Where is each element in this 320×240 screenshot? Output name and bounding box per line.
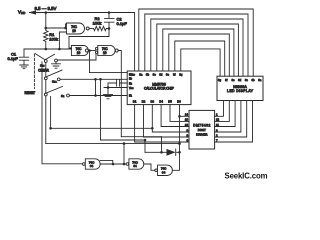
svg-text:Sa: Sa bbox=[139, 72, 143, 76]
IC digit driver DM75492 bbox=[189, 110, 215, 149]
wire row K line y=49 bbox=[24, 48, 71, 50]
svg-text:S16: S16 bbox=[40, 64, 45, 68]
wire switch chain bbox=[45, 62, 47, 77]
LED display NSN66A bbox=[217, 76, 263, 100]
svg-text:10: 10 bbox=[77, 51, 81, 55]
switch S1A bbox=[44, 77, 47, 80]
wire chip K2 row (keyboard row) bbox=[60, 78, 127, 80]
resistor R2 bbox=[94, 26, 110, 30]
svg-text:MM5736: MM5736 bbox=[152, 82, 166, 86]
op-amp gate U1A 74C10 NAND oscillator bbox=[66, 23, 84, 34]
wire gate2 tap to chip K1 bbox=[90, 51, 128, 73]
IC chip MM5736 bbox=[127, 71, 191, 105]
wire digit D5 bbox=[170, 105, 189, 122]
svg-text:VDD: VDD bbox=[18, 9, 26, 15]
svg-text:S2: S2 bbox=[61, 94, 65, 98]
wire CLEAR switch to gate3 input bbox=[57, 54, 96, 60]
dashed reset link bbox=[33, 54, 35, 89]
node rail-C2 bbox=[108, 11, 111, 14]
svg-text:LED DISPLAY: LED DISPLAY bbox=[227, 89, 254, 93]
svg-text:100k: 100k bbox=[93, 20, 102, 25]
svg-text:K1: K1 bbox=[129, 94, 133, 98]
wire gate6 out up to diode node bbox=[172, 152, 179, 170]
svg-text:DRIVER: DRIVER bbox=[196, 133, 208, 137]
wire switch chain 2 bbox=[45, 80, 47, 93]
wire digit D2 bbox=[144, 105, 190, 137]
wire riser H2 to diode node bbox=[161, 137, 163, 153]
wire S2 to riser bbox=[70, 79, 128, 95]
wire riser keyboard column bbox=[100, 79, 102, 140]
wire driver out 7 bbox=[215, 101, 253, 143]
ground chip VSS bbox=[104, 88, 113, 99]
node rail-R1 bbox=[45, 11, 48, 14]
wire gate3 out down to keyboard line H2 bbox=[118, 51, 121, 137]
capacitor C2 bbox=[105, 13, 115, 29]
gate U2B 74C04 inverter bbox=[126, 163, 129, 166]
svg-text:D1: D1 bbox=[133, 99, 137, 103]
svg-text:10: 10 bbox=[185, 123, 189, 127]
node y49-R1 bbox=[45, 48, 48, 51]
gate U1C 74C10 inverter bbox=[95, 47, 97, 49]
wire digit D6 bbox=[180, 105, 190, 117]
svg-text:D4: D4 bbox=[159, 99, 163, 103]
svg-text:Sc: Sc bbox=[245, 79, 249, 82]
svg-text:Sa: Sa bbox=[258, 79, 262, 82]
svg-text:D3: D3 bbox=[151, 99, 155, 103]
svg-text:04: 04 bbox=[133, 164, 137, 168]
wire digit D3 bbox=[152, 105, 189, 132]
gate U2A 74C04 inverter bbox=[83, 163, 86, 166]
node gate1 input tie bbox=[64, 27, 67, 30]
resistor R1 bbox=[44, 28, 48, 49]
wire keyboard column B down bbox=[50, 97, 52, 129]
wire segment arch Sd bbox=[157, 24, 239, 76]
wire keyboard column A down bbox=[45, 96, 47, 144]
svg-text:0.1µF: 0.1µF bbox=[8, 56, 19, 61]
diode D bbox=[145, 151, 167, 153]
ground C1 bbox=[20, 65, 28, 69]
svg-text:13: 13 bbox=[185, 118, 189, 122]
capacitor C3 at chip VSS bbox=[108, 80, 127, 88]
wire digit D4 bbox=[161, 105, 189, 127]
node R1-gate1 input bbox=[45, 27, 48, 30]
svg-text:Se: Se bbox=[231, 79, 235, 82]
gate U2C 74C04 inverter bbox=[155, 169, 158, 172]
wire H4 to diode bbox=[101, 139, 146, 141]
gate2 output bubble bbox=[85, 49, 88, 52]
switch S16 CLEAR bbox=[44, 60, 47, 63]
wire gate5 out to gate6 bbox=[144, 164, 155, 170]
svg-text:Sc: Sc bbox=[153, 72, 157, 76]
svg-text:Sb: Sb bbox=[146, 72, 150, 76]
gate1 output bubble bbox=[86, 27, 89, 30]
svg-text:D5: D5 bbox=[168, 99, 172, 103]
wire H2 bbox=[121, 136, 161, 138]
power rail Vdd bbox=[30, 13, 135, 72]
svg-text:Sg: Sg bbox=[218, 79, 222, 82]
svg-text:100k: 100k bbox=[49, 37, 58, 42]
svg-text:Sb: Sb bbox=[251, 79, 255, 82]
svg-text:SeekIC.com: SeekIC.com bbox=[225, 171, 268, 180]
svg-text:RESET: RESET bbox=[25, 91, 36, 95]
svg-text:Sf: Sf bbox=[173, 72, 176, 76]
capacitor C1 bbox=[19, 49, 28, 65]
wire digit D1 bbox=[135, 105, 189, 142]
wire segment arch Sb bbox=[145, 14, 248, 76]
svg-text:D6: D6 bbox=[177, 99, 181, 103]
switch RESET pole lever bbox=[35, 54, 45, 60]
wire rail to R1 bbox=[45, 13, 47, 29]
wire segment arch Sp bbox=[181, 49, 220, 76]
svg-text:VSS: VSS bbox=[129, 86, 134, 90]
ground CLEAR bbox=[52, 64, 61, 68]
gate3 output bubble bbox=[115, 49, 118, 52]
svg-text:DM75492: DM75492 bbox=[193, 123, 210, 127]
svg-text:Sd: Sd bbox=[238, 79, 242, 82]
wire segment arch Sc bbox=[151, 19, 243, 76]
svg-text:Sd: Sd bbox=[159, 72, 163, 76]
wire node to gate1 inputs bbox=[46, 27, 66, 29]
svg-text:10: 10 bbox=[103, 51, 107, 55]
svg-text:0.1µF: 0.1µF bbox=[117, 21, 128, 26]
svg-text:K3: K3 bbox=[129, 77, 133, 81]
svg-text:Sg: Sg bbox=[179, 72, 183, 76]
wire gate2 out to gate3 bbox=[88, 50, 95, 52]
node y49-gate1pin3 bbox=[58, 48, 61, 51]
wire gate4 out to gate5 bbox=[100, 160, 126, 164]
svg-text:04: 04 bbox=[162, 171, 166, 175]
wire driver out 11 bbox=[215, 101, 236, 127]
svg-text:D2: D2 bbox=[142, 99, 146, 103]
wire segment arch Sg bbox=[175, 41, 225, 76]
svg-text:Sf: Sf bbox=[225, 79, 228, 82]
svg-text:6.5 — 9.5V: 6.5 — 9.5V bbox=[35, 6, 57, 11]
svg-text:S1A: S1A bbox=[52, 80, 57, 84]
wire riser to gate1 pin3 bbox=[59, 32, 66, 49]
wire driver out 2 bbox=[215, 101, 247, 138]
svg-text:CALCULATOR CHIP: CALCULATOR CHIP bbox=[144, 87, 175, 91]
wire driver out 8 bbox=[215, 101, 241, 133]
svg-text:10: 10 bbox=[72, 29, 76, 33]
svg-text:K2: K2 bbox=[129, 82, 133, 86]
wire riser H3 to gate5 input bbox=[123, 144, 125, 164]
svg-text:Se: Se bbox=[166, 72, 170, 76]
wire gate1 out bbox=[89, 28, 93, 30]
gate U1B 74C10 bbox=[71, 46, 88, 56]
svg-text:DIGIT: DIGIT bbox=[198, 128, 206, 132]
wire driver out 12 bbox=[215, 101, 230, 122]
node feedback tap bbox=[88, 49, 91, 52]
wire chip VSS row bbox=[104, 87, 127, 89]
wire gate1 input loop bbox=[65, 24, 68, 28]
wire y49 into gate2 bbox=[70, 48, 72, 50]
arrowhead Vdd bbox=[29, 10, 37, 14]
svg-text:NSN66A: NSN66A bbox=[233, 85, 247, 89]
wire H3 bbox=[46, 143, 180, 145]
wire driver out 1 bbox=[215, 101, 224, 117]
svg-text:CLEAR: CLEAR bbox=[38, 69, 49, 73]
switch S2 bbox=[44, 93, 47, 96]
wire reset pole down to bottom gate row bbox=[42, 62, 82, 164]
svg-text:14: 14 bbox=[185, 113, 189, 117]
wire node X feedback to gate2 bbox=[69, 29, 109, 49]
svg-text:04: 04 bbox=[90, 164, 94, 168]
wire segment arch Sa bbox=[139, 9, 253, 76]
wire digit D6 extension to diode node bbox=[179, 116, 181, 152]
wire segment arch Se bbox=[163, 29, 234, 76]
wire H1 keyboard to D3 bbox=[51, 127, 153, 129]
node X R2-C2 bbox=[108, 27, 111, 30]
wire segment arch Sf bbox=[169, 34, 230, 76]
